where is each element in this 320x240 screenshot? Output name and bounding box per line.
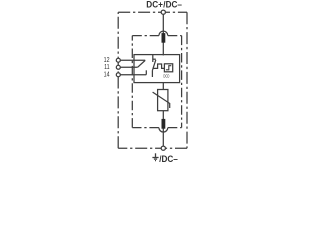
wire: terminal 12 lead xyxy=(120,59,145,61)
terminal ground/DC- (bottom) xyxy=(161,146,165,150)
wire: terminal 14 lead xyxy=(120,74,146,76)
wire: terminal 11 lead xyxy=(120,66,138,68)
svg-text:DCD: DCD xyxy=(163,74,169,79)
thermal disconnect device (bottom, filled) xyxy=(162,119,166,129)
wire crossing hump (bottom, bulge down) xyxy=(159,128,168,132)
actuation step link to DCD xyxy=(153,64,165,68)
outer enclosure dash-dot border xyxy=(118,12,187,148)
terminal 12 xyxy=(116,58,120,62)
DCD control box U1 xyxy=(164,64,172,72)
varistor RV1 xyxy=(158,90,168,111)
svg-text:14: 14 xyxy=(104,71,110,79)
wire: varistor to bottom terminal xyxy=(162,111,164,146)
varistor diagonal stroke xyxy=(153,92,170,108)
terminal 14 xyxy=(116,73,120,77)
terminal DC+/DC- (top) xyxy=(161,10,165,14)
disconnector switch xyxy=(152,55,154,62)
svg-text:DC+/DC–: DC+/DC– xyxy=(146,0,182,10)
wire crossing hump (top, bulge up) xyxy=(159,31,168,35)
inner protection-module dash-dot border xyxy=(132,36,181,128)
wire: top terminal to module box xyxy=(162,14,164,55)
monitoring/disconnector module box xyxy=(134,55,180,83)
terminal 11 xyxy=(116,65,120,69)
contact 14 fixed end xyxy=(145,70,147,74)
wire: module box to varistor xyxy=(162,83,164,90)
svg-text:/DC–: /DC– xyxy=(159,153,178,164)
step symbol inside DCD box xyxy=(166,66,171,70)
changeover contact arm (11 to 12) xyxy=(138,60,146,67)
thermal disconnect device (top, filled) xyxy=(162,33,166,43)
ground symbol xyxy=(152,153,158,160)
